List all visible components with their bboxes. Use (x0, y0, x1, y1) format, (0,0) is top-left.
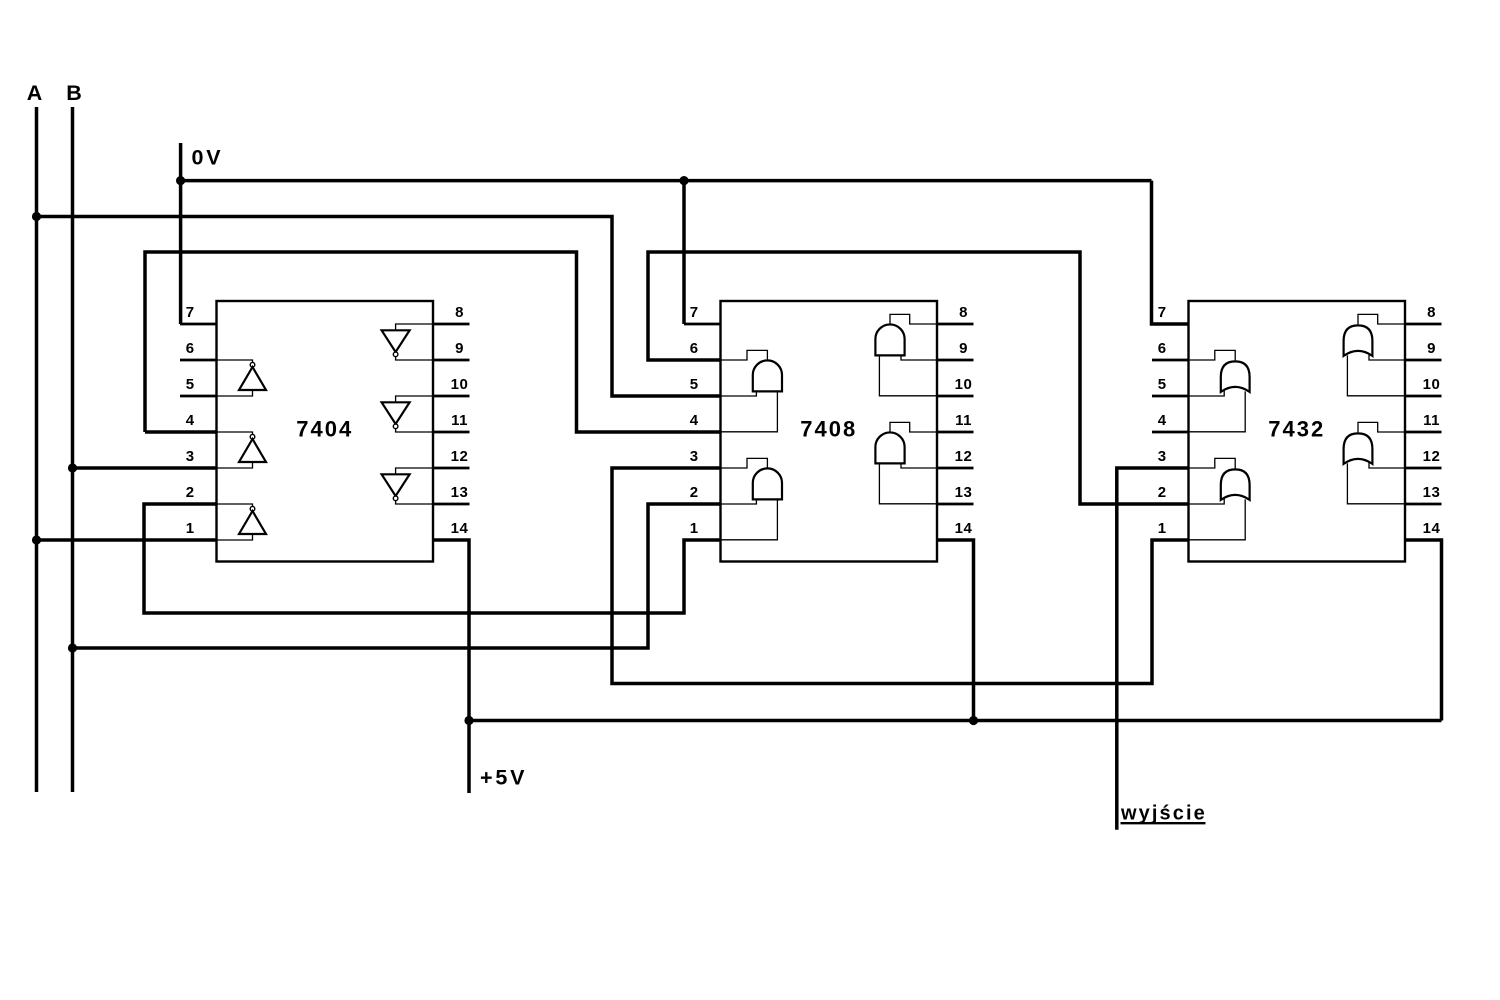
U2 pin 2 (684, 503, 721, 506)
OR gate U3c input 2 wire (1347, 355, 1405, 395)
svg-text:10: 10 (1423, 376, 1441, 393)
OR gate U3b input 2 wire (1189, 499, 1246, 539)
svg-text:9: 9 (455, 340, 464, 357)
U2 pin 9 (937, 359, 974, 362)
wire: B to 7404 pin 3 (73, 466, 217, 470)
inverter U1e bubble (393, 424, 398, 429)
svg-text:14: 14 (955, 520, 973, 537)
U3 pin 6 (1152, 359, 1189, 362)
U2 pin 12 (937, 467, 974, 470)
OR gate U3b output wire (1189, 458, 1236, 468)
AND gate U2d output wire (890, 422, 937, 432)
U2 pin 7 (684, 323, 721, 326)
inverter U1d output wire (396, 357, 433, 360)
inverter U1b bubble (250, 434, 255, 439)
U2 pin 14 (937, 539, 974, 542)
svg-text:3: 3 (690, 448, 699, 465)
inverter U1c triangle (239, 511, 266, 534)
U1 pin 14 (433, 539, 470, 542)
inverter U1c bubble (250, 506, 255, 511)
svg-text:5: 5 (186, 376, 195, 393)
wire: +5V rise to 7432 pin 14 (1405, 540, 1442, 721)
OR gate U3c body (1344, 325, 1373, 356)
svg-text:2: 2 (1158, 484, 1167, 501)
inverter U1a bubble (250, 362, 255, 367)
wire: A to 7404 pin 1 (37, 538, 217, 542)
U1 pin 3 (180, 467, 217, 470)
U1 pin 11 (433, 431, 470, 434)
wire: 0V drop to 7404 pin 7 (179, 143, 183, 324)
svg-text:14: 14 (451, 520, 469, 537)
OR gate U3a output wire (1189, 350, 1236, 360)
U2 pin 11 (937, 431, 974, 434)
AND gate U2d body (875, 432, 904, 463)
OR gate U3d output wire (1358, 422, 1405, 432)
U1 pin 10 (433, 395, 470, 398)
inverter U1d bubble (393, 352, 398, 357)
AND gate U2b input 1 wire (721, 499, 757, 504)
U2 pin 1 (684, 539, 721, 542)
U3 pin 1 (1152, 539, 1189, 542)
svg-text:5: 5 (690, 376, 699, 393)
U3 pin 11 (1405, 431, 1442, 434)
OR gate U3a input 1 wire (1189, 390, 1225, 396)
svg-text:+5V: +5V (480, 766, 527, 790)
svg-text:2: 2 (186, 484, 195, 501)
svg-text:13: 13 (451, 484, 469, 501)
wire: 7404 pin 4 to 7408 pin 4 (145, 430, 217, 434)
U2 pin 13 (937, 503, 974, 506)
svg-text:4: 4 (186, 412, 195, 429)
U2 pin 10 (937, 395, 974, 398)
AND gate U2a body (753, 360, 782, 391)
U2 pin 6 (684, 359, 721, 362)
AND gate U2b output wire (721, 458, 768, 468)
svg-text:9: 9 (959, 340, 968, 357)
OR gate U3d input 2 wire (1347, 463, 1405, 503)
svg-text:6: 6 (690, 340, 699, 357)
U1 pin 8 (433, 323, 470, 326)
wire: 7432 pin 3 to output wyjscie (1117, 468, 1189, 830)
AND gate U2a input 2 wire (721, 391, 778, 431)
svg-text:3: 3 (1158, 448, 1167, 465)
AND gate U2a input 1 wire (721, 391, 757, 396)
wire: input B vertical rail (71, 107, 75, 792)
U1 pin 7 (180, 323, 217, 326)
U3 pin 9 (1405, 359, 1442, 362)
junction dot at 0V rail / 7408 pin7 (679, 176, 688, 185)
junction dot at +5V rail / 7408 pin14 (969, 716, 978, 725)
inverter U1f output wire (396, 501, 433, 504)
U3 pin 12 (1405, 467, 1442, 470)
svg-text:7: 7 (186, 304, 195, 321)
svg-text:7: 7 (1158, 304, 1167, 321)
wire: 0V drop to 7432 pin 7 (1152, 181, 1189, 324)
inverter U1d input wire (396, 324, 433, 330)
U3 pin 2 (1152, 503, 1189, 506)
inverter U1f triangle (382, 474, 410, 496)
svg-text:4: 4 (690, 412, 699, 429)
svg-text:9: 9 (1427, 340, 1436, 357)
OR gate U3c input 1 wire (1369, 354, 1405, 360)
inverter U1f input wire (396, 468, 433, 474)
wire: 7408 pin 3 to 7432 pin 1 (612, 468, 1189, 684)
svg-text:4: 4 (1158, 412, 1167, 429)
inverter U1a output wire (217, 360, 253, 362)
wire: 7404 pin 14 drop to +5V rail (433, 540, 469, 793)
AND gate U2b body (753, 468, 782, 499)
junction dot at A / 7408 pin5 wire (32, 212, 41, 221)
svg-text:8: 8 (959, 304, 968, 321)
IC U2 7408 body (721, 301, 938, 562)
svg-text:8: 8 (455, 304, 464, 321)
U2 pin 3 (684, 467, 721, 470)
svg-text:wyjście: wyjście (1120, 803, 1207, 825)
U2 pin 4 (684, 431, 721, 434)
svg-text:7404: 7404 (296, 417, 353, 442)
svg-text:8: 8 (1427, 304, 1436, 321)
OR gate U3b body (1221, 469, 1250, 500)
svg-text:3: 3 (186, 448, 195, 465)
AND gate U2c body (875, 324, 904, 355)
inverter U1b output wire (217, 432, 253, 434)
wire: 0V horizontal rail (181, 179, 1152, 183)
junction dot at B / 7408 pin2 wire (68, 643, 77, 652)
IC U3 7432 body (1189, 301, 1406, 562)
U2 pin 5 (684, 395, 721, 398)
svg-text:6: 6 (186, 340, 195, 357)
U1 pin 6 (180, 359, 217, 362)
wire: 0V drop to 7408 pin 7 (682, 181, 686, 324)
wire: B to 7408 pin 2 (73, 504, 721, 648)
AND gate U2d input 2 wire (879, 463, 937, 503)
inverter U1f bubble (393, 496, 398, 501)
OR gate U3b input 1 wire (1189, 498, 1225, 504)
AND gate U2b input 2 wire (721, 499, 778, 539)
svg-text:12: 12 (955, 448, 973, 465)
svg-text:B: B (66, 81, 82, 105)
AND gate U2a output wire (721, 350, 768, 360)
inverter U1c output wire (217, 504, 253, 506)
svg-text:7432: 7432 (1268, 417, 1325, 442)
wire: 7408 pin 14 drop to +5V rail (937, 540, 974, 721)
junction dot at A / 7404 pin1 wire (32, 535, 41, 544)
U1 pin 1 (180, 539, 217, 542)
inverter U1b triangle (239, 439, 266, 462)
svg-text:2: 2 (690, 484, 699, 501)
svg-text:13: 13 (955, 484, 973, 501)
junction dot at B / 7404 pin3 wire (68, 463, 77, 472)
wire: +5V horizontal rail (469, 719, 1442, 723)
U3 pin 14 (1405, 539, 1442, 542)
OR gate U3a input 2 wire (1189, 391, 1246, 431)
wire: 7404 pin 2 to 7408 pin 1 (144, 504, 721, 613)
inverter U1e input wire (396, 396, 433, 402)
OR gate U3d body (1344, 433, 1373, 464)
U3 pin 3 (1152, 467, 1189, 470)
U3 pin 7 (1152, 323, 1189, 326)
AND gate U2d input 1 wire (901, 463, 937, 468)
U1 pin 2 (180, 503, 217, 506)
svg-text:14: 14 (1423, 520, 1441, 537)
IC U1 7404 body (217, 301, 434, 562)
OR gate U3c output wire (1358, 314, 1405, 324)
wire: input A vertical rail (35, 107, 39, 792)
svg-text:11: 11 (955, 412, 972, 429)
svg-text:7408: 7408 (800, 417, 857, 442)
inverter U1e output wire (396, 429, 433, 432)
svg-text:7: 7 (690, 304, 699, 321)
U3 pin 4 (1152, 431, 1189, 434)
U1 pin 5 (180, 395, 217, 398)
svg-text:11: 11 (1423, 412, 1440, 429)
svg-text:12: 12 (1423, 448, 1441, 465)
U1 pin 13 (433, 503, 470, 506)
inverter U1a triangle (239, 367, 266, 390)
inverter U1c input wire (217, 534, 253, 540)
svg-text:0V: 0V (192, 146, 224, 170)
svg-text:13: 13 (1423, 484, 1441, 501)
U2 pin 8 (937, 323, 974, 326)
U3 pin 8 (1405, 323, 1442, 326)
U3 pin 10 (1405, 395, 1442, 398)
svg-text:11: 11 (451, 412, 468, 429)
U1 pin 12 (433, 467, 470, 470)
svg-text:1: 1 (1158, 520, 1167, 537)
svg-text:A: A (27, 81, 43, 105)
svg-text:1: 1 (690, 520, 699, 537)
svg-text:12: 12 (451, 448, 469, 465)
junction dot at +5V rail / 7404 pin14 (464, 716, 473, 725)
U3 pin 5 (1152, 395, 1189, 398)
inverter U1a input wire (217, 390, 253, 396)
svg-text:10: 10 (955, 376, 973, 393)
U1 pin 4 (180, 431, 217, 434)
junction dot at 0V rail / 7404 pin7 (176, 176, 185, 185)
svg-text:1: 1 (186, 520, 195, 537)
svg-text:6: 6 (1158, 340, 1167, 357)
AND gate U2c output wire (890, 314, 937, 324)
inverter U1b input wire (217, 462, 253, 468)
wyjscie label underline (1121, 822, 1206, 824)
wire: 7408 pin 6 to 7432 pin 2 (648, 252, 1189, 504)
U1 pin 9 (433, 359, 470, 362)
OR gate U3a body (1221, 361, 1250, 392)
AND gate U2c input 1 wire (901, 355, 937, 360)
OR gate U3d input 1 wire (1369, 462, 1405, 468)
inverter U1e triangle (382, 402, 410, 424)
AND gate U2c input 2 wire (879, 355, 937, 395)
inverter U1d triangle (382, 330, 410, 352)
wire: A to 7408 pin 5 (37, 217, 721, 397)
U3 pin 13 (1405, 503, 1442, 506)
svg-text:10: 10 (451, 376, 469, 393)
svg-text:5: 5 (1158, 376, 1167, 393)
